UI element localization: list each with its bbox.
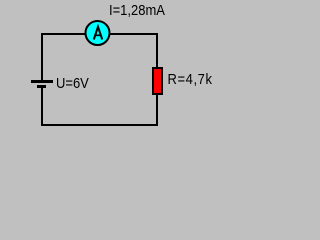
svg-text:I=1,28mA: I=1,28mA: [109, 2, 166, 18]
svg-text:R=4,7k: R=4,7k: [168, 72, 213, 88]
svg-text:U=6V: U=6V: [56, 75, 90, 91]
